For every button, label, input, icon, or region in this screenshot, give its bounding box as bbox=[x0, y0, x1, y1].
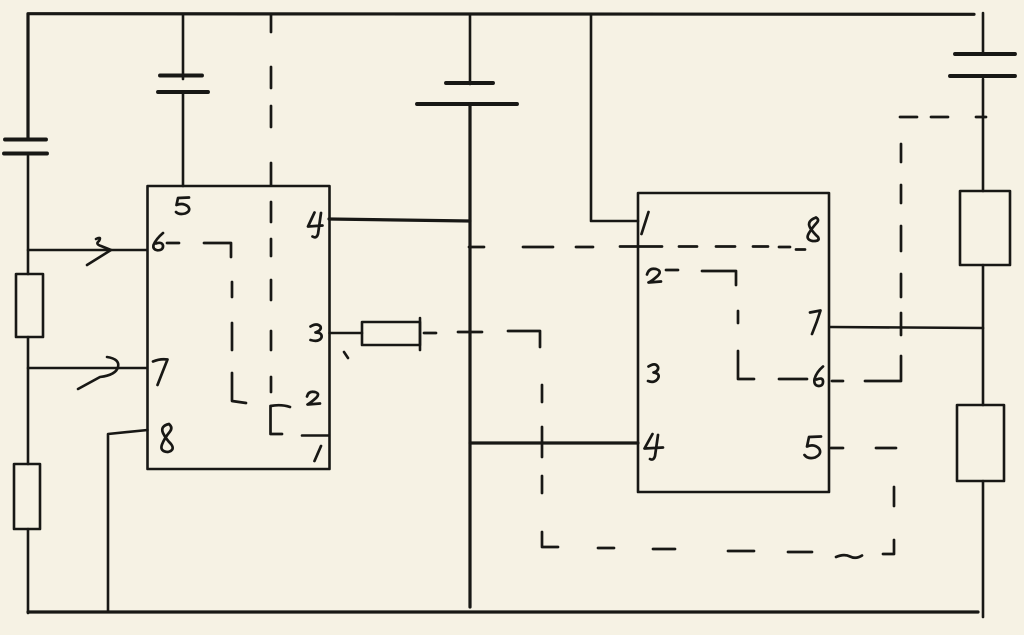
U2 pin 4 label bbox=[645, 434, 664, 460]
dashed net A segment bbox=[270, 239, 273, 256]
dashed net A segment bbox=[270, 163, 273, 185]
resistor R1 body bbox=[16, 274, 43, 337]
dashed net D elbow bbox=[738, 351, 754, 379]
stray tick near R5 bbox=[344, 352, 348, 358]
wire: right bus lower segment bbox=[982, 481, 985, 617]
wire: center net to U2 pin 4 bbox=[470, 441, 638, 444]
dashed net G squiggle segment bbox=[836, 555, 862, 558]
wire: U1 pin 1 stub bbox=[302, 434, 329, 437]
arrow into U1 pin 7 bbox=[78, 357, 118, 389]
dashed net D segment bbox=[737, 311, 740, 323]
dashed net C segment bbox=[679, 245, 697, 248]
dashed net B elbow bbox=[232, 373, 246, 403]
wire: bottom ground bus bbox=[28, 610, 978, 613]
capacitor C3 bottom plate bbox=[950, 74, 1015, 78]
dashed net E segment bbox=[931, 116, 948, 119]
dashed net E segment bbox=[900, 144, 903, 162]
dashed net H segment across center net bbox=[458, 331, 482, 334]
wire: left bus to U1 pin 6 bbox=[28, 249, 147, 252]
dashed net A segment bbox=[270, 67, 273, 88]
wire: top bus down to capacitor C2 bbox=[182, 14, 185, 79]
wire: U1 pin 3 to resistor R5 bbox=[330, 332, 363, 335]
dashed net C segment bbox=[716, 245, 735, 248]
dashed net E elbow to U2 pin 6 bbox=[865, 356, 901, 381]
dashed net H segment bbox=[541, 385, 544, 402]
dashed net E segment across U2 pin 7 wire bbox=[900, 313, 903, 335]
dashed net D: U2 pin 2 stub bbox=[666, 269, 678, 272]
dashed net A bracket at U1 pin 2 bbox=[271, 405, 291, 434]
capacitor C2 top plate bbox=[160, 74, 202, 78]
op-amp U2 package outline bbox=[638, 193, 829, 492]
dashed net G segment bbox=[598, 547, 614, 550]
wire: left bus upper segment bbox=[26, 14, 29, 139]
dashed net F segment bbox=[876, 447, 896, 450]
dashed net B corner bbox=[204, 243, 231, 257]
dashed net C segment bbox=[796, 248, 805, 251]
dashed net E segment bbox=[900, 226, 903, 251]
U1 pin 7 label bbox=[153, 359, 168, 385]
capacitor C2 bottom plate bbox=[158, 90, 208, 94]
wire: left bus lower segment bbox=[27, 529, 30, 613]
dashed net H: after R5, segment bbox=[424, 332, 436, 335]
U2 pin 1 label bbox=[642, 212, 649, 234]
U1 pin 6 label bbox=[153, 233, 163, 250]
wire: C2 to U1 pin 5 bbox=[182, 93, 185, 186]
dashed net F elbow bbox=[883, 540, 894, 554]
dashed net E stub at U2 pin 6 bbox=[832, 380, 843, 383]
dashed net H segment across U2 pin 4 wire bbox=[541, 427, 544, 457]
U1 pin 1 label bbox=[315, 446, 322, 461]
U2 pin 7 label bbox=[810, 311, 821, 335]
resistor R4 body bbox=[957, 405, 1004, 481]
dashed net D segment to U2 pin 6 bbox=[779, 378, 807, 381]
wire: U1 pin 4 to center net bbox=[329, 219, 470, 221]
wire: top supply bus bbox=[28, 12, 974, 16]
U1 pin 5 label bbox=[176, 198, 189, 215]
op-amp U1 package outline bbox=[148, 186, 330, 469]
capacitor C1 top plate bbox=[5, 138, 46, 142]
dashed net G segment bbox=[653, 548, 675, 551]
wire: U2 pin 7 to right bus bbox=[830, 327, 983, 328]
dashed net H corner down bbox=[508, 331, 540, 347]
dashed net E: top segment bbox=[900, 116, 917, 119]
resistor R5 right lead stroke bbox=[419, 318, 422, 350]
dashed net B segment bbox=[231, 282, 234, 297]
wire: right bus upper segment bbox=[982, 13, 985, 54]
dashed net C segment bbox=[620, 245, 662, 248]
dashed net F: U2 pin 5 stub bbox=[831, 447, 843, 450]
dashed net C segment bbox=[779, 246, 790, 249]
U2 pin 6 label bbox=[814, 367, 823, 387]
U1 pin 3 label bbox=[311, 325, 322, 341]
wire: left bus between C1 and R1 bbox=[27, 156, 30, 274]
dashed net G segment bbox=[788, 551, 812, 554]
U1 pin 4 label bbox=[308, 213, 323, 238]
wire: top bus down then right to U2 pin 1 bbox=[591, 14, 638, 221]
capacitor C3 top plate bbox=[955, 52, 1015, 56]
dashed net A: top bus down through U1 (stub at bus) bbox=[270, 15, 273, 32]
dashed net A segment bbox=[270, 331, 273, 350]
dashed net E segment bbox=[900, 185, 903, 203]
battery B1 short plate bbox=[446, 81, 493, 85]
resistor R2 body bbox=[14, 464, 40, 529]
U2 pin 8 label bbox=[808, 218, 819, 242]
wire: U1 pin 8 down to ground bus bbox=[108, 430, 148, 610]
dashed net C: center net to U2 pin 8, segment bbox=[469, 246, 484, 249]
wire: left bus to U1 pin 7 bbox=[28, 367, 147, 370]
dashed net H segment bbox=[541, 476, 544, 493]
dashed net D corner bbox=[702, 271, 736, 285]
U2 pin 5 label bbox=[805, 437, 822, 459]
arrow into U1 pin 6 bbox=[87, 238, 111, 265]
dashed net F segment bbox=[893, 487, 896, 506]
dashed net G: bottom run elbow from net H bbox=[542, 532, 558, 547]
dashed net G segment bbox=[728, 550, 754, 553]
dashed net B: U1 pin 6 stub bbox=[167, 242, 179, 245]
dashed net E segment bbox=[900, 274, 903, 297]
wire: right bus between R3 and R4 bbox=[982, 265, 985, 405]
resistor R5 body bbox=[362, 322, 420, 345]
U2 pin 2 label bbox=[647, 269, 661, 283]
U1 pin 2 label bbox=[307, 392, 320, 405]
dashed net A segment bbox=[270, 377, 273, 392]
U2 pin 3 label bbox=[648, 364, 659, 381]
U1 pin 8 label bbox=[161, 424, 172, 452]
capacitor C1 bottom plate bbox=[4, 152, 47, 156]
dashed net A segment bbox=[270, 280, 273, 300]
dashed net A segment bbox=[270, 106, 273, 127]
wire: center vertical net below B1 bbox=[468, 104, 471, 607]
dashed net C segment bbox=[753, 245, 768, 248]
dashed net B segment bbox=[231, 323, 234, 350]
dashed net C segment bbox=[523, 246, 553, 249]
wire: left bus between R1 and R2 bbox=[27, 337, 30, 464]
dashed net C segment bbox=[576, 246, 593, 249]
wire: top bus down to battery B1 bbox=[469, 14, 472, 84]
wire: right bus between C3 and R3 bbox=[982, 79, 985, 191]
battery B1 long plate bbox=[417, 102, 517, 106]
resistor R3 body bbox=[960, 191, 1010, 265]
dashed net A segment bbox=[270, 202, 273, 222]
dashed net E tick across right bus bbox=[976, 116, 986, 119]
